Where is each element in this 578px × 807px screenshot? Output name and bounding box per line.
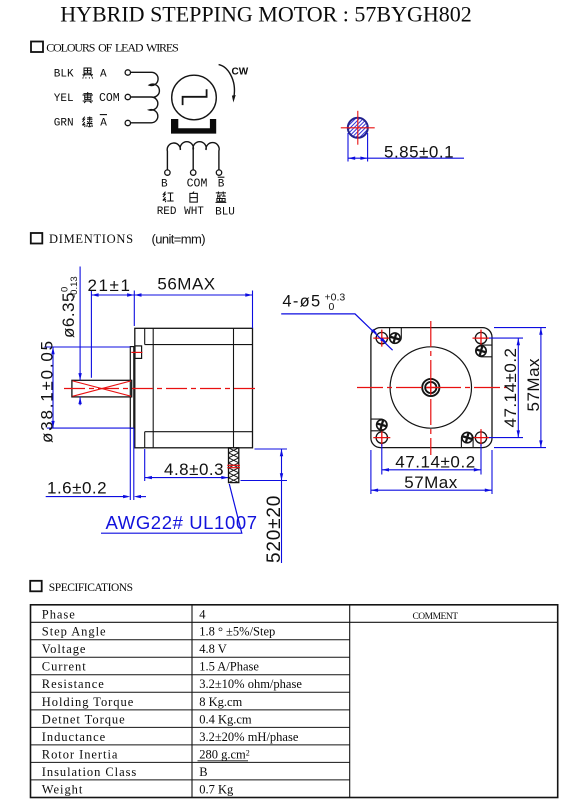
svg-text:Inductance: Inductance (42, 730, 106, 744)
lead wire braid hatch (229, 448, 239, 483)
dim line 47.14 right (517, 338, 519, 438)
table row lines (31, 640, 350, 780)
mounting hole bottom-left (373, 429, 390, 446)
svg-text:280 g.cm2: 280 g.cm2 (199, 747, 250, 761)
svg-text:CW: CW (232, 67, 249, 78)
arrow 6.35 lower (78, 397, 81, 404)
body inner vertical line right endcap (233, 328, 235, 448)
svg-text:Detnet Torque: Detnet Torque (42, 712, 126, 726)
svg-text:5.85±0.1: 5.85±0.1 (384, 142, 454, 161)
arrow 6.35 upper (78, 373, 81, 380)
svg-text:1.5 A/Phase: 1.5 A/Phase (199, 660, 259, 674)
svg-text:1.8 ° ±5%/Step: 1.8 ° ±5%/Step (199, 625, 275, 639)
arrow 56 right (245, 293, 252, 296)
arrow 1.6 right (134, 495, 141, 498)
title (60, 2, 472, 27)
ext line 520 bottom (241, 480, 288, 482)
svg-text:4.8±0.3: 4.8±0.3 (164, 460, 224, 479)
shaft red cross diagonal 1 (73, 381, 132, 396)
table divider col2 (349, 605, 351, 798)
leader line to AWG label (101, 484, 242, 533)
terminal A (125, 70, 130, 75)
section checkbox: specifications (30, 581, 42, 592)
shaft cross-section hatch (334, 104, 383, 153)
dia 6.35 rotated text with tolerance (59, 276, 80, 338)
label 4-dia5 with tolerance (282, 292, 345, 314)
rotated text 520 (264, 495, 285, 563)
dimension line 5.85 (348, 157, 464, 159)
arrow 520 up (280, 449, 283, 456)
ext line 47.14 bottom right (480, 444, 482, 475)
svg-text:B: B (161, 178, 168, 190)
dim line 57Max right (540, 328, 542, 448)
keyway red line (131, 351, 142, 353)
svg-text:A: A (100, 117, 107, 129)
svg-text:Holding Torque: Holding Torque (42, 695, 134, 709)
mounting hole top-right (473, 330, 490, 347)
arrow 21 left (91, 293, 98, 296)
dia 6.35 dim line lower (79, 397, 81, 405)
ext line 57Max bottom left (370, 450, 372, 494)
svg-text:(unit=mm): (unit=mm) (152, 231, 206, 246)
red centerline (64, 388, 258, 390)
svg-text:3.2±20% mH/phase: 3.2±20% mH/phase (199, 730, 299, 744)
arrow 57MaxB right (485, 489, 492, 492)
shaft outline (72, 380, 132, 397)
dim line 4.8 (145, 477, 229, 479)
phase B coil (horizontal winding) (167, 142, 219, 170)
underline under rotor inertia value (198, 760, 249, 762)
terminal Abar (125, 120, 130, 125)
svg-text:Resistance: Resistance (42, 677, 105, 691)
svg-text:RED: RED (157, 206, 177, 218)
dim line 1.6 (46, 496, 128, 498)
arrow right 5.85 (360, 157, 367, 160)
svg-text:Rotor Inertia: Rotor Inertia (42, 747, 119, 761)
arrow 57MaxR bottom (539, 440, 542, 447)
front pilot boss plate (130, 347, 134, 429)
terminal COM (125, 94, 130, 99)
arrow 1.6 left (123, 495, 130, 498)
arrow 38.1 top (51, 347, 54, 354)
svg-text:4.8 V: 4.8 V (199, 642, 227, 656)
svg-text:56MAX: 56MAX (157, 275, 215, 294)
svg-text:YEL: YEL (54, 93, 74, 105)
ext line 56MAX right (252, 291, 254, 329)
terminal B (165, 170, 170, 175)
ext lines 1.6 (boss thickness) (129, 428, 131, 500)
corner screw bottom-right (461, 432, 473, 448)
svg-text:COM: COM (187, 177, 208, 190)
rotated text 47.14 right (501, 347, 520, 427)
hub outer circle (422, 379, 439, 396)
arrow 57MaxB left (371, 489, 378, 492)
dim line 47.14 bottom (382, 469, 481, 471)
ext line 520 top (255, 448, 288, 450)
corner post line bottom-left (144, 432, 146, 448)
front view red centerline vertical (430, 321, 432, 455)
svg-text:SPECIFICATIONS: SPECIFICATIONS (49, 582, 133, 594)
rotor circle (motor symbol) (172, 75, 217, 120)
arrow 47.14R bottom (517, 430, 520, 437)
CW rotation arc (219, 65, 235, 97)
svg-text:B: B (218, 178, 225, 190)
front face large circle (390, 347, 471, 428)
wire label GRN row (54, 117, 108, 129)
ext line 4.8 left (144, 449, 146, 481)
svg-text:B: B (199, 765, 207, 779)
arrow 57MaxR top (539, 328, 542, 335)
svg-text:BLU: BLU (215, 207, 235, 219)
overline on A (GRN row) (100, 114, 107, 116)
svg-text:Insulation Class: Insulation Class (42, 765, 137, 779)
chinese glyph hei (black) (83, 68, 94, 79)
ext line 47.14 right bottom (489, 437, 523, 439)
svg-text:Step Angle: Step Angle (42, 625, 107, 639)
svg-text:COM: COM (99, 92, 120, 105)
overline on Bbar (218, 176, 225, 178)
body inner horizontal line bottom (145, 431, 253, 433)
arrow 47.14B left (382, 468, 389, 471)
dia 38.1 top extension line (44, 346, 130, 348)
keyway detail box (135, 346, 142, 359)
svg-text:0.4 Kg.cm: 0.4 Kg.cm (199, 712, 252, 726)
arrow 1.6 right tail (137, 496, 146, 498)
table header underline (31, 621, 558, 623)
table texts column 1 (42, 607, 137, 796)
ext line 57Max right bottom (494, 447, 546, 449)
corner screw bottom-left (371, 419, 387, 431)
svg-text:COMMENT: COMMENT (412, 612, 458, 622)
svg-text:ø38.1±0.05: ø38.1±0.05 (38, 339, 57, 443)
mounting hole bottom-right (473, 429, 490, 446)
leader line 4-dia5 (281, 314, 392, 350)
ext line 57Max right top (494, 327, 546, 329)
svg-text:DIMENTIONS: DIMENTIONS (49, 232, 134, 246)
svg-text:A: A (100, 69, 107, 81)
body inner vertical line left endcap (152, 328, 154, 448)
svg-text:Phase: Phase (42, 607, 76, 621)
shaft cross-section outline (348, 118, 368, 138)
extension line right (5.85 dim) (367, 133, 369, 162)
dim line 21+-1 (91, 294, 134, 296)
chinese glyph huang (yellow) (83, 92, 94, 103)
table divider col1 (191, 605, 193, 798)
wire label BLK row (54, 69, 107, 81)
dia 38.1 bottom extension line (47, 427, 134, 429)
arrow left 5.85 (348, 157, 355, 160)
terminal Bbar (216, 170, 221, 175)
svg-text:WHT: WHT (184, 206, 204, 218)
ext line 47.14 right top (489, 337, 523, 339)
svg-text:4: 4 (199, 607, 206, 621)
arrow 4.8 right (221, 476, 228, 479)
center red plus (427, 383, 436, 392)
section checkbox: dimentions (31, 233, 43, 244)
dia 38.1 dim line (52, 347, 54, 428)
arrow 4.8 left (145, 476, 152, 479)
svg-text:1.6±0.2: 1.6±0.2 (47, 479, 107, 498)
spec table outer border (31, 605, 558, 798)
svg-text:4-ø5: 4-ø5 (282, 293, 321, 311)
arrow 38.1 bottom (51, 421, 54, 428)
svg-text:57Max: 57Max (524, 358, 543, 412)
extension line left (5.85 dim) (347, 133, 349, 162)
arrow 56 left (134, 293, 141, 296)
CW arrowhead (232, 95, 236, 103)
rotor step mark (183, 89, 207, 105)
section checkbox: colours of lead wires (31, 42, 43, 53)
chinese glyph lv (green) (82, 117, 92, 128)
ext line 57Max bottom right (491, 450, 493, 494)
svg-text:Weight: Weight (42, 782, 84, 796)
svg-text:Current: Current (42, 660, 87, 674)
svg-text:COLOURS OF LEAD WIRES: COLOURS OF LEAD WIRES (46, 40, 178, 54)
dim line 56MAX (134, 294, 252, 296)
dim line 57Max bottom (371, 489, 492, 491)
chinese glyph hong (red) (163, 192, 174, 203)
phase A coil (vertical winding) (131, 72, 160, 123)
front view red centerline horizontal (357, 387, 507, 389)
terminal COM2 (191, 170, 196, 175)
dia 6.35 dim line upper (79, 267, 81, 381)
stator bracket (black U) (171, 119, 216, 134)
svg-text:0: 0 (329, 301, 335, 313)
svg-text:AWG22# UL1007: AWG22# UL1007 (106, 512, 258, 533)
dia 38.1 rotated text (38, 339, 57, 443)
chinese glyph bai (white) (190, 192, 197, 203)
arrow 47.14B right (474, 468, 481, 471)
dim 21+-1 extension line (90, 291, 92, 378)
shaft section centerline horizontal (341, 127, 375, 129)
svg-text:8 Kg.cm: 8 Kg.cm (199, 695, 242, 709)
chinese glyph lan (blue) (216, 192, 227, 203)
ext line 56MAX left (body front face) (133, 291, 135, 327)
corner screw top-left (389, 328, 401, 344)
svg-text:21±1: 21±1 (87, 276, 131, 295)
corner screw top-right (475, 345, 492, 357)
arrow 520 down (280, 473, 283, 480)
arrow 47.14R top (517, 338, 520, 345)
arrow 21 right (127, 293, 134, 296)
shaft red cross diagonal 2 (73, 381, 132, 396)
svg-text:BLK: BLK (54, 69, 74, 81)
svg-text:57Max: 57Max (404, 473, 458, 492)
svg-text:520±20: 520±20 (264, 495, 285, 563)
dim line 520 vertical (281, 449, 283, 563)
rotated text 57Max right (524, 358, 543, 412)
ext line 47.14 bottom left (381, 444, 383, 475)
mounting hole top-left (373, 330, 390, 347)
svg-text:47.14±0.2: 47.14±0.2 (395, 453, 475, 472)
shaft section centerline vertical (357, 111, 359, 145)
motor body side view outline (135, 328, 253, 448)
svg-text:47.14±0.2: 47.14±0.2 (501, 347, 520, 427)
svg-text:-0.13: -0.13 (69, 276, 80, 298)
svg-text:GRN: GRN (54, 117, 74, 129)
wire label YEL row (54, 92, 120, 105)
front view flange square (371, 328, 492, 448)
leader arrowhead (371, 329, 378, 334)
svg-text:Voltage: Voltage (42, 642, 87, 656)
svg-text:0.7 Kg: 0.7 Kg (199, 782, 234, 796)
red band on wire bundle (227, 464, 240, 466)
lead wire bundle outline (229, 448, 239, 483)
corner post line top-left (144, 328, 146, 344)
hub inner circle (shaft) (425, 382, 436, 393)
body inner horizontal line top (145, 344, 253, 346)
table texts column 2 (199, 607, 302, 796)
svg-text:HYBRID STEPPING MOTOR : 57BYGH: HYBRID STEPPING MOTOR : 57BYGH802 (60, 2, 472, 27)
svg-text:3.2±10% ohm/phase: 3.2±10% ohm/phase (199, 677, 302, 691)
